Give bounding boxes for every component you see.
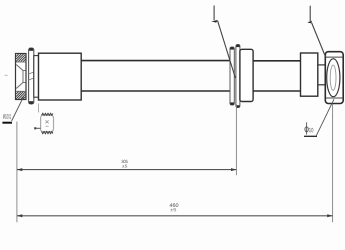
extension line left bbox=[16, 122, 18, 223]
thread detail box bbox=[41, 115, 54, 131]
svg-text:M10X1: M10X1 bbox=[3, 114, 12, 121]
stub tube bottom bbox=[318, 84, 326, 86]
hose segment B bottom bbox=[253, 90, 300, 92]
nut hatch bottom bbox=[16, 92, 26, 100]
crimp sleeve S1 (left) bbox=[39, 53, 82, 100]
leader dia10 bbox=[316, 99, 334, 136]
crimp sleeve S3 (right) bbox=[301, 53, 318, 96]
nut hatch top bbox=[16, 54, 26, 62]
thread detail inner marks bbox=[46, 120, 49, 126]
eye bottom band bbox=[326, 97, 343, 99]
nut inner band lines bbox=[16, 61, 27, 63]
eye inner ellipse bbox=[330, 65, 336, 90]
thread detail projection line bbox=[38, 104, 40, 113]
leader right vertical bbox=[310, 6, 325, 57]
stub tube top bbox=[318, 64, 326, 66]
collar step bbox=[34, 56, 39, 98]
leader M10X1 bbox=[12, 95, 25, 121]
flare cone inside nut bbox=[16, 65, 26, 89]
hose segment B top bbox=[253, 60, 300, 62]
eye fitting body (right end) bbox=[325, 52, 343, 104]
leader middle (flag) bbox=[214, 6, 235, 79]
eye top band bbox=[326, 56, 343, 58]
extension line right bbox=[332, 104, 334, 222]
thread zigzag top bbox=[42, 113, 53, 115]
centerline tick left bbox=[5, 74, 8, 76]
eye outer ellipse bbox=[327, 59, 340, 97]
svg-text:10: 10 bbox=[309, 127, 314, 134]
label dia10 bbox=[305, 122, 308, 134]
hose segment A bottom bbox=[81, 90, 230, 92]
washer W2 (middle, first) bbox=[230, 47, 234, 105]
thread zigzag bottom bbox=[42, 132, 53, 134]
washer W1 (left flange) bbox=[29, 48, 34, 104]
svg-text:±5: ±5 bbox=[170, 207, 177, 212]
extension line middle bbox=[235, 104, 237, 175]
thread detail pointer bbox=[35, 127, 41, 129]
washer W3 (middle, second) bbox=[236, 45, 240, 108]
dimension line 1 bbox=[17, 169, 237, 171]
dimension line 2 bbox=[17, 215, 333, 217]
nut B1 (left fitting nut, sectioned) bbox=[16, 54, 27, 100]
crimp sleeve S2 (middle) bbox=[240, 49, 253, 101]
hose segment A top bbox=[81, 60, 230, 62]
